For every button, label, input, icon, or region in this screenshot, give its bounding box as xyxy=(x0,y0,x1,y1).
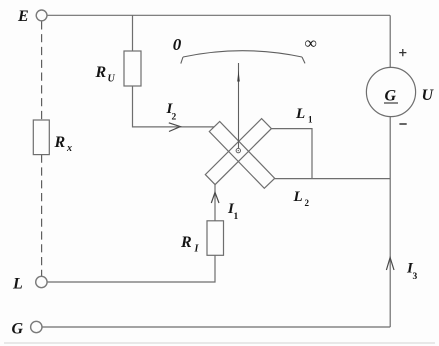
svg-text:1: 1 xyxy=(234,212,239,222)
arrow I2 xyxy=(169,123,181,132)
svg-text:R: R xyxy=(180,234,192,251)
arrow I3 xyxy=(386,258,394,270)
terminal E xyxy=(36,10,47,21)
needle arrowhead xyxy=(237,70,240,81)
svg-text:R: R xyxy=(54,134,66,151)
scale left tick xyxy=(181,57,183,64)
scale arc xyxy=(183,51,302,57)
svg-text:L: L xyxy=(295,106,305,122)
svg-text:L: L xyxy=(293,189,303,205)
resistor Rx xyxy=(33,120,49,155)
resistor RI xyxy=(207,221,224,256)
wire: top bus down to resistor RU xyxy=(132,15,134,51)
label minus (generator negative) xyxy=(399,123,406,125)
dashed wire: terminal E down to resistor Rx xyxy=(41,21,43,120)
svg-text:U: U xyxy=(422,87,435,104)
coil B: voltage coil of ratiometer (lower-left to upper-right bar) xyxy=(205,119,271,185)
scale right tick xyxy=(302,57,305,63)
svg-text:0: 0 xyxy=(173,35,182,54)
svg-text:L: L xyxy=(12,276,23,293)
pivot center dot xyxy=(238,150,239,151)
pivot of ratiometer xyxy=(236,148,240,152)
svg-text:∞: ∞ xyxy=(305,33,317,52)
svg-text:G: G xyxy=(385,88,397,105)
wire: coil A lower end right to right bus (L2 net) xyxy=(275,178,391,180)
wire: generator minus down right side to bottom bus xyxy=(389,117,391,327)
arrow I1 xyxy=(211,192,219,203)
svg-text:1: 1 xyxy=(308,115,313,125)
wire: coil B upper end right then down to L2 node xyxy=(271,129,312,179)
label plus (generator positive) xyxy=(399,49,406,56)
svg-text:x: x xyxy=(66,143,72,154)
wire: right vertical from top bus to generator plus terminal xyxy=(389,15,391,67)
wire: resistor RI up to coil B lower end xyxy=(214,185,216,221)
wire: bottom guard bus from terminal G to right side xyxy=(42,326,390,328)
generator U1 xyxy=(366,67,415,116)
svg-text:2: 2 xyxy=(172,113,177,123)
resistor RU xyxy=(124,51,141,86)
coil A: current coil of ratiometer (upper-left to lower-right bar) xyxy=(209,122,274,189)
wire: resistor RU down then right to coil A upper end xyxy=(133,86,214,127)
wire: from terminal L right then up to resistor RI xyxy=(47,255,215,282)
svg-text:3: 3 xyxy=(413,272,418,282)
terminal L xyxy=(36,276,47,287)
needle xyxy=(238,63,240,148)
svg-text:I: I xyxy=(194,244,200,255)
svg-text:U: U xyxy=(108,74,116,85)
svg-text:G: G xyxy=(12,321,24,338)
generator G underline xyxy=(384,102,398,104)
terminal G xyxy=(31,321,42,332)
svg-text:E: E xyxy=(17,8,29,25)
dashed wire: resistor Rx down to terminal L xyxy=(41,155,43,276)
svg-text:R: R xyxy=(95,64,107,81)
bottom border line (decorative) xyxy=(4,342,435,344)
svg-text:2: 2 xyxy=(305,198,310,208)
wire: top bus from terminal E to generator xyxy=(47,14,390,16)
